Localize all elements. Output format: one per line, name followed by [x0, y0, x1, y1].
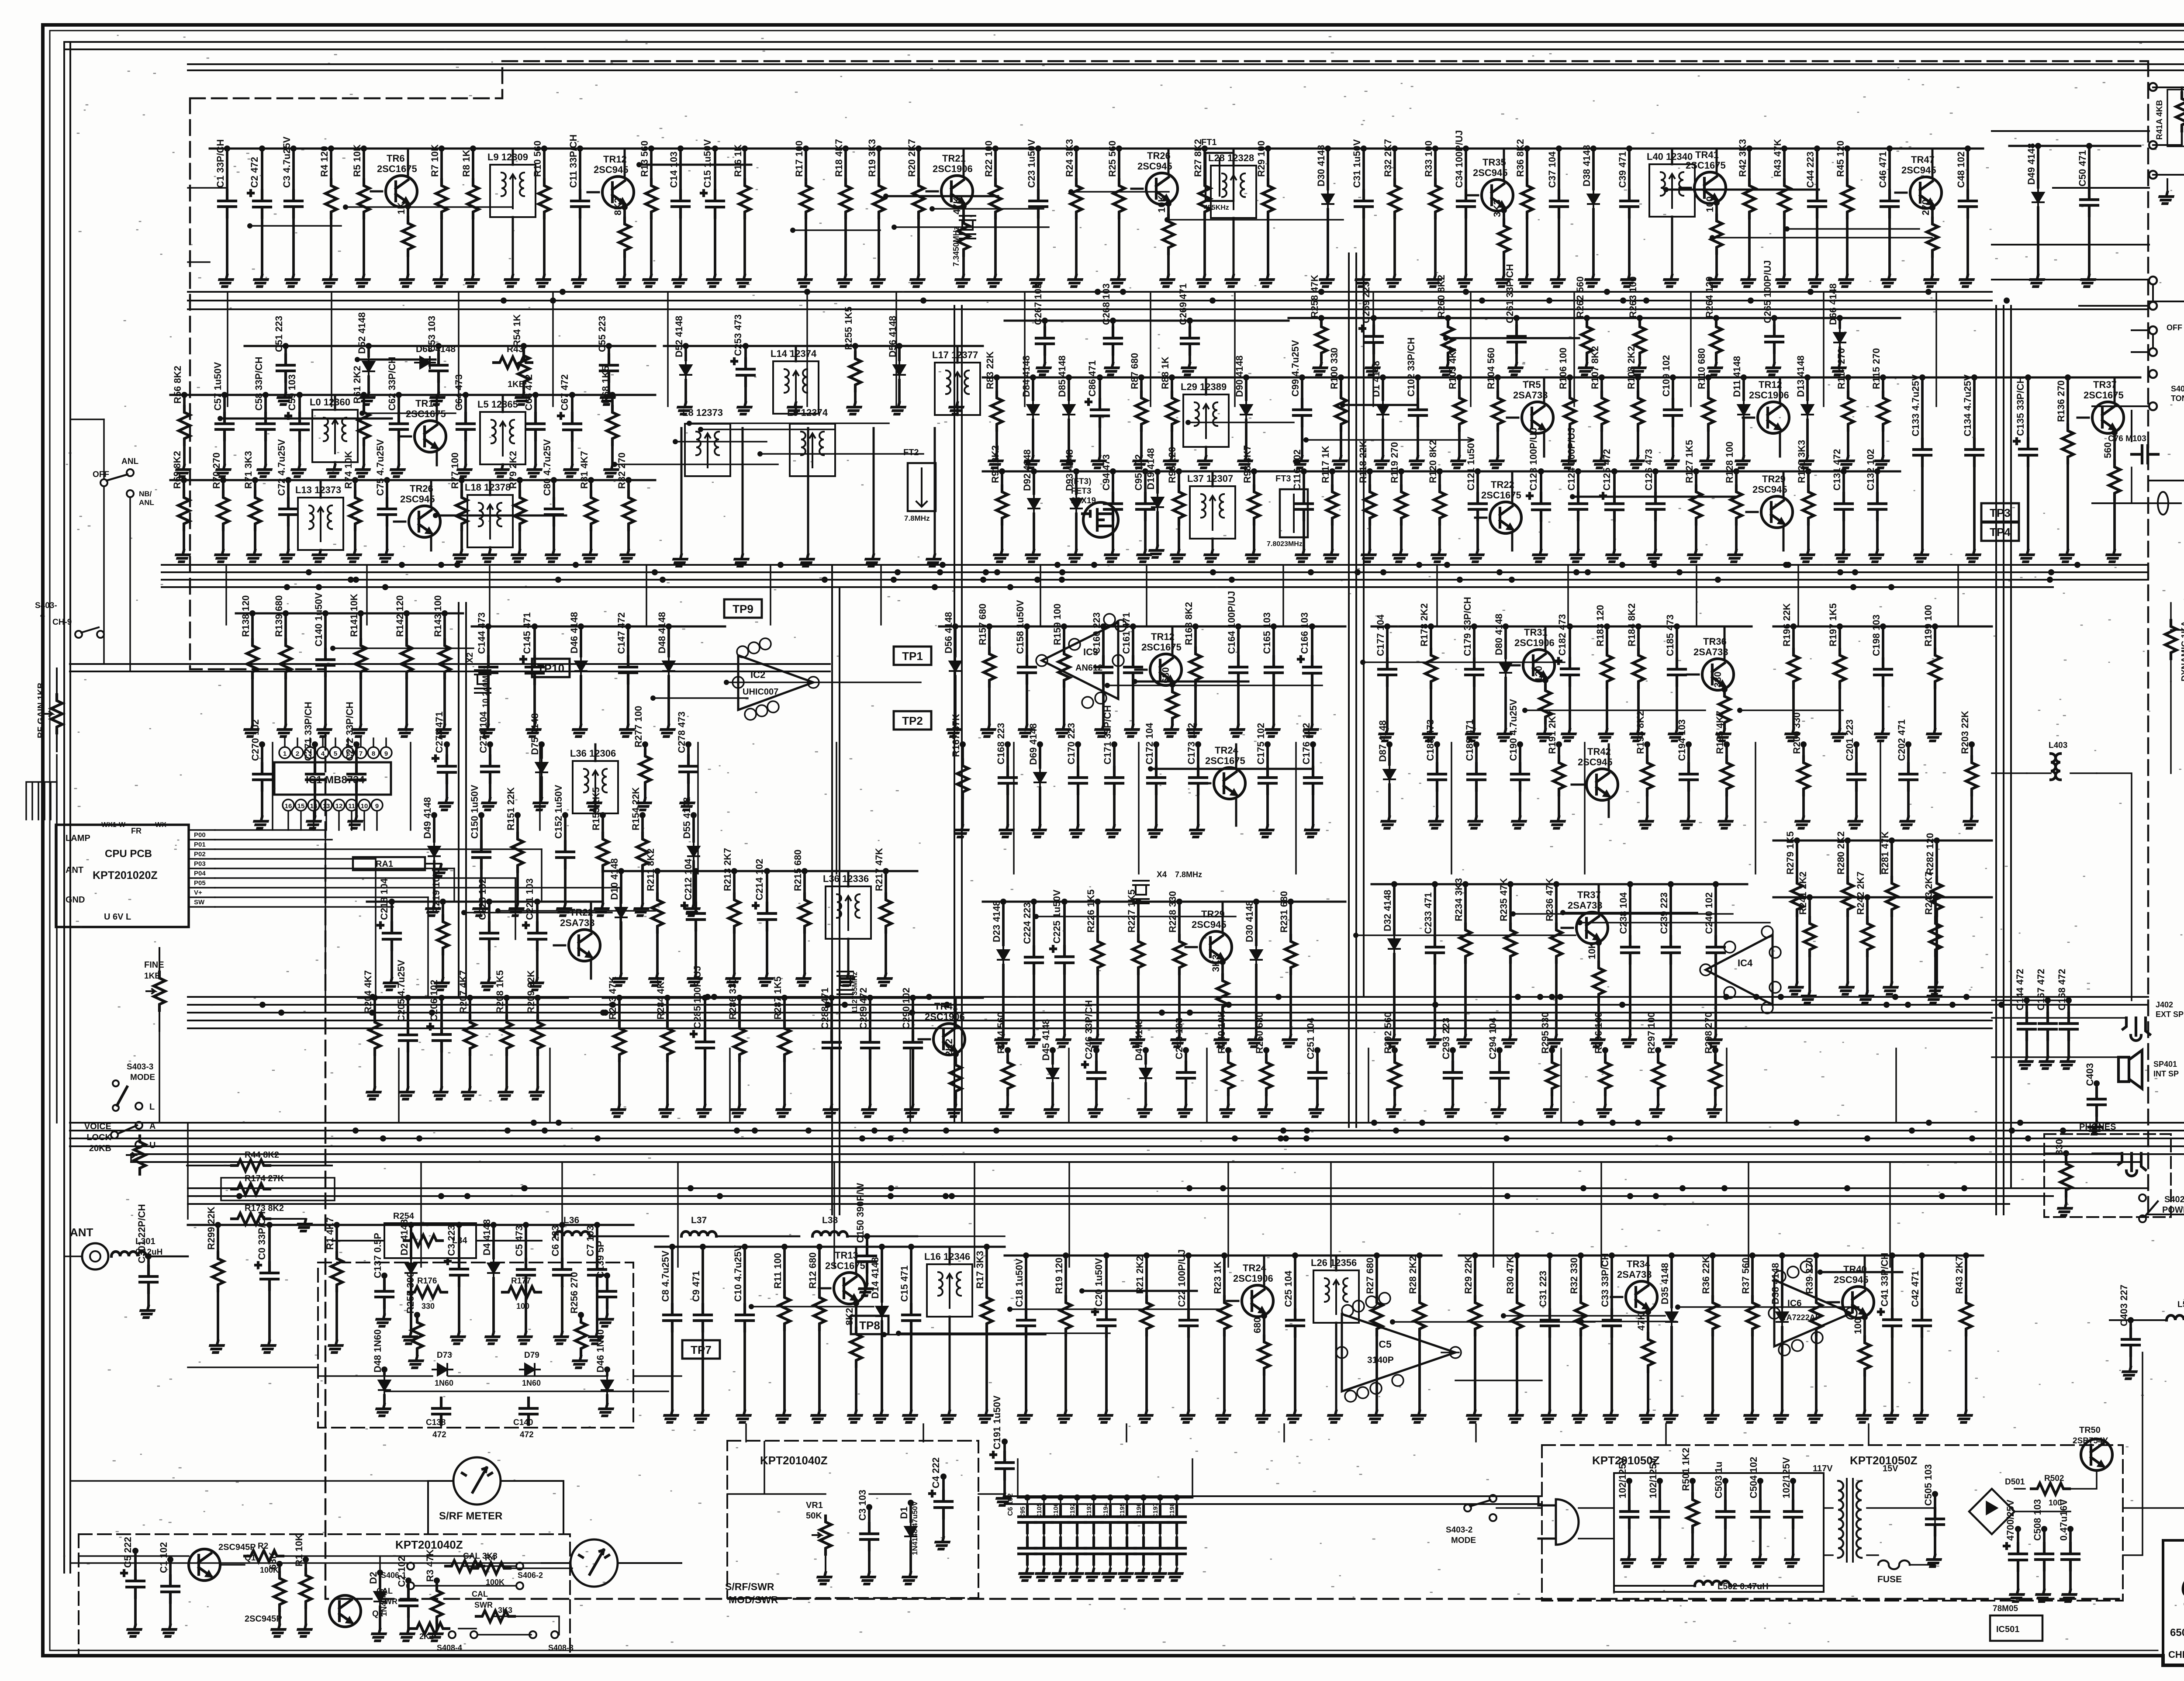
- crystal FT2: [908, 463, 936, 511]
- resistor R264: [1715, 318, 1717, 321]
- wire rail: [188, 1224, 393, 1226]
- wire net vertical: [225, 565, 227, 625]
- capacitor C193: [1093, 1498, 1095, 1506]
- wire net vertical: [1584, 743, 1586, 874]
- inductor L78: [467, 495, 513, 547]
- svg-text:R74 10K: R74 10K: [343, 451, 354, 489]
- transistor TR237: [1576, 912, 1608, 944]
- capacitor C272: [355, 744, 358, 764]
- svg-text:R228 330: R228 330: [1167, 891, 1178, 933]
- potentiometer FINE 1KB: [146, 972, 165, 1010]
- svg-text:NB/: NB/: [139, 490, 152, 498]
- resistor R283: [618, 998, 621, 1022]
- svg-text:CHICAGO, ILLINOIS 60635: CHICAGO, ILLINOIS 60635: [2168, 1649, 2184, 1660]
- capacitor C191: [1003, 1442, 1006, 1452]
- svg-text:R82 270: R82 270: [616, 453, 627, 489]
- svg-text:102/125V: 102/125V: [1617, 1457, 1628, 1498]
- svg-text:R115 270: R115 270: [1871, 348, 1882, 389]
- svg-text:R8 1K: R8 1K: [461, 150, 472, 177]
- svg-text:14: 14: [310, 802, 318, 810]
- capacitor C190: [1519, 744, 1521, 764]
- svg-text:16: 16: [285, 802, 292, 810]
- capacitor C333: [1610, 1256, 1613, 1310]
- resistor R319: [1064, 1256, 1067, 1297]
- switch S402 POWER: [2139, 1194, 2146, 1201]
- svg-text:C116 102: C116 102: [1292, 450, 1303, 491]
- svg-text:WX1-W: WX1-W: [101, 821, 126, 829]
- svg-text:C9 471: C9 471: [691, 1271, 702, 1302]
- capacitor C66: [534, 395, 537, 413]
- wire net: [701, 429, 834, 430]
- svg-text:VR1: VR1: [806, 1501, 823, 1510]
- svg-text:D79: D79: [524, 1351, 539, 1360]
- svg-text:TP7: TP7: [691, 1343, 712, 1356]
- svg-text:ANT: ANT: [70, 1226, 93, 1239]
- wire net vertical: [745, 1424, 747, 1442]
- capacitor C106: [1060, 1498, 1061, 1506]
- transistor TR6: [386, 176, 417, 207]
- wire bus below row B: [162, 565, 2148, 587]
- resistor R70: [222, 480, 225, 491]
- capacitor C507: [2017, 1529, 2019, 1543]
- wire net: [220, 418, 392, 420]
- svg-text:2K2: 2K2: [419, 1632, 434, 1641]
- node A: [135, 1122, 142, 1129]
- resistor R330: [1516, 1256, 1518, 1297]
- svg-text:C95 102: C95 102: [1133, 454, 1144, 491]
- node U: [135, 1141, 142, 1148]
- pin: [1113, 655, 1124, 666]
- svg-text:SWR: SWR: [474, 1601, 493, 1609]
- svg-text:2SC945P: 2SC945P: [218, 1543, 256, 1552]
- svg-text:C18 1u50V: C18 1u50V: [1014, 1258, 1025, 1307]
- svg-text:R249 10K: R249 10K: [1216, 1010, 1227, 1054]
- svg-text:IC2: IC2: [750, 669, 765, 680]
- wire net: [760, 453, 923, 455]
- inductor L97: [1190, 486, 1235, 539]
- box power inner: [1614, 1473, 1824, 1592]
- svg-text:R286 330: R286 330: [727, 978, 738, 1020]
- wire net vertical: [1470, 292, 1472, 406]
- svg-text:R250 680: R250 680: [1254, 1012, 1265, 1054]
- svg-text:C1 102: C1 102: [158, 1542, 169, 1573]
- diode D148: [667, 626, 670, 656]
- svg-text:C190 4.7u25V: C190 4.7u25V: [1508, 699, 1519, 761]
- diode D19 4148: [1156, 472, 1159, 492]
- pin 11: [346, 799, 357, 811]
- svg-text:C253 473: C253 473: [733, 315, 743, 356]
- wire meter leads: [428, 1481, 681, 1563]
- svg-text:P01: P01: [194, 841, 206, 848]
- svg-text:R4 120: R4 120: [319, 146, 330, 177]
- svg-text:C6 223: C6 223: [550, 1225, 561, 1256]
- svg-text:C290 102: C290 102: [901, 988, 912, 1029]
- inductor L89: [1183, 394, 1229, 447]
- resistor R45: [1846, 149, 1849, 180]
- resistor R110: [1707, 377, 1710, 392]
- resistor R1 10K: [304, 1560, 307, 1569]
- svg-text:C109 102: C109 102: [1661, 355, 1672, 397]
- svg-text:R127 1K5: R127 1K5: [1684, 440, 1695, 483]
- capacitor C135: [2027, 377, 2029, 439]
- svg-text:R19 3K3: R19 3K3: [867, 139, 878, 177]
- resistor R157: [988, 626, 991, 648]
- wire net: [362, 412, 456, 414]
- diode D79 1N60: [520, 1364, 540, 1375]
- diode D256: [898, 346, 901, 360]
- wire net vertical: [489, 565, 491, 625]
- transistor TR229: [1200, 931, 1232, 963]
- svg-text:IC501: IC501: [1996, 1625, 2019, 1634]
- wire net: [1581, 1321, 1676, 1322]
- capacitor C195: [1126, 1498, 1128, 1506]
- wire net vertical: [398, 1048, 400, 1123]
- resistor R281: [1890, 840, 1893, 877]
- pin: [733, 677, 744, 688]
- svg-text:2SC945: 2SC945: [1192, 919, 1227, 930]
- transistor TR174: [1214, 768, 1245, 799]
- resistor R208: [505, 998, 508, 1016]
- svg-text:FT3: FT3: [1275, 474, 1291, 484]
- op-amp IC3 AN612: [1042, 623, 1118, 699]
- resistor R317: [985, 1247, 988, 1291]
- resistor R68: [611, 395, 614, 406]
- resistor 3K3: [476, 1611, 515, 1622]
- svg-text:C3 103: C3 103: [857, 1490, 868, 1521]
- wire net: [1446, 337, 1579, 339]
- wire rail: [1372, 626, 1752, 628]
- svg-text:2SC945: 2SC945: [1834, 1274, 1869, 1285]
- capacitor C5 222: [134, 1551, 137, 1570]
- pin: [1811, 1332, 1823, 1343]
- resistor R200: [1802, 744, 1805, 757]
- dashed box phones: [2044, 1134, 2171, 1217]
- capacitor C152: [564, 815, 567, 841]
- svg-text:TP4: TP4: [1990, 526, 2011, 539]
- wire net vertical: [539, 743, 541, 830]
- connector comb: [26, 782, 57, 820]
- svg-text:C274 104: C274 104: [478, 711, 489, 753]
- svg-text:C289 472: C289 472: [858, 988, 869, 1029]
- svg-text:L0 12360: L0 12360: [310, 397, 350, 408]
- capacitor C294: [1498, 1050, 1501, 1062]
- wire rail: [1005, 1255, 1441, 1257]
- capacitor C403 WB: [2095, 1083, 2098, 1089]
- wire net: [932, 208, 1044, 210]
- resistor R339: [1815, 1256, 1818, 1297]
- svg-text:6500 W. CORTLAND ST.: 6500 W. CORTLAND ST.: [2170, 1627, 2184, 1639]
- wire right connect: [2011, 301, 2184, 1214]
- resistor R136: [2067, 377, 2069, 425]
- connector phone jack: [2118, 1153, 2146, 1176]
- resistor R5: [363, 149, 365, 180]
- transistor Q2 2SC945P: [329, 1595, 361, 1627]
- svg-text:R213 2K7: R213 2K7: [722, 848, 733, 891]
- transistor TR129: [1761, 496, 1793, 528]
- svg-text:R262 560: R262 560: [1575, 277, 1586, 318]
- capacitor C192: [1076, 1498, 1078, 1506]
- svg-text:C273 471: C273 471: [434, 712, 445, 753]
- pin 4: [317, 747, 328, 758]
- inductor L257: [935, 363, 980, 415]
- svg-text:R193 8K2: R193 8K2: [1635, 711, 1646, 754]
- resistor R7: [440, 149, 443, 180]
- resistor R32: [1393, 149, 1396, 180]
- diode D210: [620, 871, 622, 903]
- pin: [1792, 1340, 1803, 1351]
- svg-text:C147 472: C147 472: [616, 612, 627, 654]
- transistor TR186: [1702, 659, 1734, 690]
- wire bus mid: [188, 997, 2148, 1028]
- resistor R77: [460, 480, 463, 491]
- wire psu right: [2123, 1352, 2184, 1555]
- svg-text:TR36: TR36: [1703, 636, 1727, 647]
- resistor R91: [1001, 471, 1003, 486]
- svg-text:TA7222AP: TA7222AP: [1782, 1313, 1821, 1322]
- wire rail: [983, 377, 1289, 379]
- capacitor C501: [1628, 1481, 1631, 1501]
- svg-text:C31 223: C31 223: [1538, 1271, 1548, 1307]
- svg-text:2SA733: 2SA733: [1617, 1269, 1652, 1280]
- svg-text:TR31: TR31: [1524, 627, 1548, 638]
- svg-text:D11 4148: D11 4148: [1731, 356, 1742, 397]
- wire net: [435, 515, 566, 517]
- capacitor C123: [1540, 471, 1542, 493]
- resistor R312: [818, 1247, 821, 1291]
- svg-text:C505 103: C505 103: [1923, 1464, 1934, 1506]
- svg-text:R11 100: R11 100: [772, 1253, 783, 1289]
- capacitor C240: [1714, 884, 1717, 937]
- capacitor C306: [561, 1225, 563, 1259]
- svg-text:9: 9: [375, 802, 379, 810]
- svg-text:C194 103: C194 103: [1676, 719, 1687, 761]
- wire rail: [1289, 470, 1900, 473]
- capacitor C147: [627, 626, 629, 657]
- svg-text:C503 1u: C503 1u: [1713, 1462, 1724, 1498]
- svg-text:2SC1675: 2SC1675: [1686, 160, 1726, 171]
- resistor R256 270: [580, 1315, 582, 1316]
- capacitor C164: [1237, 626, 1240, 657]
- capacitor C105: [1043, 1498, 1045, 1506]
- svg-text:2SC1906: 2SC1906: [933, 163, 973, 174]
- capacitor C308: [671, 1247, 674, 1304]
- pin: [1353, 1301, 1364, 1312]
- resistor R299: [217, 1225, 219, 1252]
- wire net vertical: [1935, 292, 1937, 406]
- resistor R301: [335, 1225, 338, 1252]
- diode D52: [367, 346, 370, 356]
- svg-text:C80 4.7u25V: C80 4.7u25V: [542, 439, 553, 496]
- capacitor C109: [1672, 377, 1674, 399]
- resistor R329: [1474, 1256, 1476, 1297]
- capacitor C131: [1842, 471, 1845, 493]
- capacitor C50: [2088, 146, 2091, 189]
- node TP1: [894, 647, 931, 665]
- wire net vertical: [1138, 743, 1140, 874]
- wire net vertical: [677, 1162, 679, 1267]
- svg-text:C177 104: C177 104: [1375, 614, 1386, 656]
- svg-text:CAL 3K3: CAL 3K3: [463, 1552, 498, 1561]
- wire net vertical: [1068, 1162, 1070, 1267]
- wire rail: [1372, 883, 1747, 885]
- svg-text:C48 102: C48 102: [1956, 152, 1966, 188]
- capacitor C246: [1095, 1050, 1098, 1062]
- svg-text:FINE: FINE: [144, 960, 164, 970]
- wire net vertical: [1573, 292, 1575, 406]
- pin: [1774, 1271, 1786, 1282]
- svg-text:R2: R2: [258, 1542, 268, 1551]
- svg-text:2SA733: 2SA733: [1568, 900, 1603, 911]
- svg-text:C168 472: C168 472: [2056, 969, 2067, 1010]
- svg-text:R208 1K5: R208 1K5: [494, 970, 505, 1013]
- resistor R311: [783, 1247, 786, 1291]
- resistor R88: [1171, 377, 1173, 392]
- svg-text:FT2: FT2: [903, 448, 919, 457]
- svg-text:1: 1: [283, 750, 287, 757]
- pin: [808, 677, 819, 688]
- resistor R176 330: [408, 1287, 447, 1298]
- wire net: [498, 910, 655, 912]
- wire cap bank stub: [1018, 1459, 1192, 1498]
- svg-text:7.8MHz: 7.8MHz: [904, 514, 930, 522]
- svg-text:C198 103: C198 103: [1871, 615, 1882, 656]
- resistor R24: [1075, 149, 1078, 180]
- capacitor C212: [695, 871, 697, 903]
- svg-text:2SC1675: 2SC1675: [1205, 755, 1245, 766]
- svg-text:S/RF METER: S/RF METER: [439, 1510, 502, 1522]
- wire net vertical: [1493, 1162, 1494, 1267]
- svg-text:POWER: POWER: [2162, 1205, 2184, 1215]
- svg-text:TR5: TR5: [1523, 379, 1541, 390]
- svg-text:D52 4148: D52 4148: [674, 316, 684, 357]
- capacitor C175: [1266, 744, 1269, 767]
- svg-text:2SB754Y: 2SB754Y: [2073, 1436, 2108, 1446]
- node TP9: [724, 599, 762, 618]
- svg-text:TR13: TR13: [415, 398, 439, 409]
- svg-text:R23 1K: R23 1K: [1212, 1261, 1223, 1294]
- resistor R183: [1606, 626, 1608, 649]
- svg-text:MODE: MODE: [130, 1073, 155, 1082]
- fuse FUSE: [1878, 1560, 1910, 1569]
- svg-text:C270 102: C270 102: [250, 719, 261, 761]
- svg-text:C140 1u50V: C140 1u50V: [313, 592, 324, 647]
- resistor R8: [472, 149, 474, 180]
- diode D245: [1051, 1050, 1054, 1063]
- svg-text:C188 473: C188 473: [1425, 719, 1436, 761]
- resistor R96: [1178, 471, 1180, 486]
- wire rail: [367, 901, 603, 903]
- resistor R103: [1458, 377, 1461, 392]
- wire net: [357, 359, 435, 361]
- fet FET3 2SX19: [1082, 502, 1118, 537]
- svg-text:1KB: 1KB: [508, 380, 525, 389]
- inductor L73: [298, 498, 343, 550]
- wire net: [793, 229, 880, 231]
- IC IC1 MB8734: [274, 762, 391, 795]
- svg-text:R1 10K: R1 10K: [294, 1534, 304, 1567]
- svg-text:D32 4148: D32 4148: [1382, 890, 1393, 931]
- diode D302: [410, 1225, 412, 1258]
- resistor R4: [330, 149, 332, 180]
- svg-text:U: U: [149, 1141, 156, 1150]
- wire net vertical: [561, 1162, 563, 1267]
- svg-text:FUSE: FUSE: [1877, 1574, 1902, 1584]
- capacitor C34: [1465, 149, 1467, 190]
- capacitor C170: [1077, 744, 1079, 767]
- diode D73 1N60: [432, 1364, 453, 1375]
- svg-text:VOICE: VOICE: [84, 1122, 111, 1131]
- svg-text:10K: 10K: [1586, 942, 1597, 959]
- svg-text:R32 330: R32 330: [1569, 1258, 1579, 1294]
- svg-text:15: 15: [297, 802, 305, 810]
- resistor R191: [1558, 744, 1560, 757]
- resistor R44 8K2: [232, 1160, 270, 1171]
- wire net vertical: [1040, 565, 1041, 625]
- svg-text:C197: C197: [1152, 1503, 1159, 1518]
- transistor TR35: [1482, 180, 1513, 211]
- resistor R154: [641, 815, 644, 833]
- wire right mid: [2092, 411, 2184, 503]
- wire net vertical: [1436, 565, 1438, 625]
- capacitor C137: [383, 1276, 386, 1281]
- pin: [1762, 1002, 1773, 1013]
- diode D335: [1670, 1256, 1673, 1307]
- capacitor C55: [608, 346, 610, 355]
- resistor R227: [1137, 902, 1140, 935]
- svg-text:C164 100P/UJ: C164 100P/UJ: [1226, 591, 1237, 654]
- svg-text:C259 223: C259 223: [1361, 282, 1372, 323]
- resistor R79: [518, 480, 521, 491]
- svg-text:R207 4K7: R207 4K7: [458, 970, 469, 1013]
- switch S403-4 ANL: [100, 479, 107, 486]
- wire net: [1135, 681, 1248, 683]
- svg-text:TR26: TR26: [1147, 150, 1171, 161]
- svg-text:R1 4K7: R1 4K7: [325, 1217, 335, 1250]
- svg-text:D23 4148: D23 4148: [991, 901, 1002, 942]
- svg-text:2SC945: 2SC945: [1578, 757, 1613, 768]
- potentiometer VOICE LOCK 20KB: [127, 1136, 145, 1174]
- svg-text:102/125V: 102/125V: [1781, 1457, 1792, 1498]
- diode D111: [1742, 377, 1745, 400]
- wire rail: [170, 394, 655, 396]
- capacitor C144: [487, 626, 490, 657]
- svg-text:12: 12: [335, 802, 343, 810]
- resistor R106: [1569, 377, 1571, 392]
- resistor 330: [2065, 1153, 2067, 1158]
- inductor L326: [1313, 1270, 1359, 1323]
- svg-text:C59 103: C59 103: [287, 374, 297, 411]
- wire rail: [983, 901, 1345, 903]
- resistor R217: [885, 871, 887, 894]
- ground: [926, 555, 941, 566]
- inductor L403: [2051, 754, 2060, 780]
- svg-text:2SC945: 2SC945: [1473, 167, 1508, 178]
- capacitor C206: [440, 998, 443, 1024]
- svg-text:R242 2K7: R242 2K7: [1855, 872, 1866, 915]
- wire rail: [1773, 626, 1992, 628]
- svg-text:C37 104: C37 104: [1547, 151, 1558, 188]
- svg-text:D14 4148: D14 4148: [870, 1257, 881, 1299]
- resistor R255: [854, 346, 857, 353]
- resistor R327: [1375, 1256, 1378, 1297]
- pin 2: [292, 747, 303, 758]
- svg-text:C140: C140: [513, 1418, 533, 1427]
- svg-text:15V: 15V: [1883, 1464, 1898, 1473]
- resistor R250: [1265, 1050, 1268, 1056]
- svg-text:R195 4K7: R195 4K7: [1714, 711, 1725, 754]
- svg-text:C39 471: C39 471: [1617, 152, 1628, 188]
- svg-text:L: L: [149, 1102, 155, 1112]
